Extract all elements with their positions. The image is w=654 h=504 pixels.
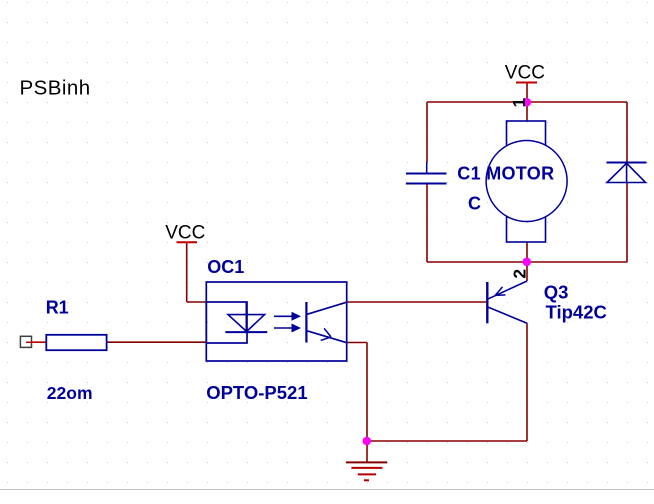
svg-text:22om: 22om [47,383,93,403]
svg-text:2: 2 [510,269,530,279]
svg-text:OC1: OC1 [207,257,244,277]
svg-text:1: 1 [509,97,529,107]
svg-text:OPTO-P521: OPTO-P521 [206,382,307,403]
svg-text:Q3: Q3 [544,281,569,302]
svg-text:VCC: VCC [505,62,545,83]
svg-text:VCC: VCC [165,223,205,244]
svg-text:C1 MOTOR: C1 MOTOR [457,163,554,183]
svg-text:C: C [468,193,481,213]
svg-text:PSBinh: PSBinh [20,76,91,99]
svg-text:R1: R1 [46,297,69,317]
svg-text:Tip42C: Tip42C [546,301,607,322]
